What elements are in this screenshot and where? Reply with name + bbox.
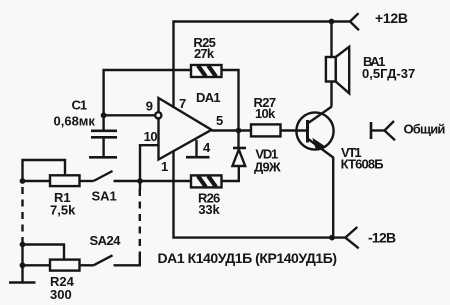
wire: R26 left to switch bus bbox=[114, 180, 192, 182]
junction dot R24 left node bbox=[20, 262, 26, 268]
wire: rail to R1 left bbox=[23, 180, 51, 182]
resistor R26 hatch bbox=[198, 176, 216, 187]
switch SA24 lever bbox=[94, 255, 113, 265]
speaker BA1 body bbox=[326, 57, 336, 82]
svg-text:Общий: Общий bbox=[404, 122, 446, 137]
switch SA1 lever bbox=[94, 171, 113, 181]
svg-text:5: 5 bbox=[216, 113, 223, 128]
svg-text:-12В: -12В bbox=[368, 230, 396, 246]
wire: pin 10 input bbox=[140, 145, 159, 181]
transistor VT1 emitter arrow bbox=[312, 138, 325, 151]
left rail dashed section bbox=[21, 187, 23, 241]
resistor R26 body bbox=[191, 175, 222, 187]
wire: pin 9 input from C1 node bbox=[104, 114, 156, 116]
transistor VT1 emitter bbox=[308, 139, 334, 238]
ground bar below rail bbox=[9, 281, 36, 284]
wire: R1 right to SA1 contact bbox=[80, 180, 94, 182]
ground bar pin 4 bbox=[186, 156, 210, 159]
svg-text:DA1 К140УД1Б (КР140УД1Б): DA1 К140УД1Б (КР140УД1Б) bbox=[158, 250, 337, 266]
wire: SA24 right contact to bus bbox=[114, 254, 140, 265]
junction dot +12V / speaker node bbox=[329, 19, 335, 25]
svg-text:+12В: +12В bbox=[375, 10, 408, 26]
terminal +12V arrow bbox=[350, 13, 359, 30]
wire: output pin 5 to R27 bbox=[212, 129, 252, 131]
junction dot switch bus node bbox=[137, 178, 143, 184]
wire: rail to R24 left bbox=[23, 264, 51, 266]
wire: speaker bottom lead to collector bbox=[330, 82, 332, 107]
junction dot R1 rail node bbox=[20, 178, 26, 184]
left rail top corner and R1 tap bbox=[23, 160, 66, 181]
speaker BA1 cone bbox=[336, 47, 350, 94]
terminal common post bbox=[370, 122, 373, 139]
svg-text:27k: 27k bbox=[194, 46, 215, 61]
junction dot R24 tap node bbox=[20, 242, 26, 248]
terminal common arrow bbox=[385, 121, 396, 140]
wire: R27 to base bbox=[281, 129, 308, 131]
op-amp pin 9 inversion bubble bbox=[155, 112, 161, 118]
junction dot C1 / pin9 / feedback node bbox=[101, 112, 107, 118]
svg-text:КТ608Б: КТ608Б bbox=[341, 156, 384, 171]
svg-text:SA1: SA1 bbox=[92, 189, 117, 204]
junction dot -12V / emitter node bbox=[329, 235, 335, 241]
left rail solid lower section bbox=[21, 241, 23, 282]
wire: +12V rail from pin 7 up and right to terminal bbox=[174, 22, 351, 109]
wire: R25 right to output node bbox=[222, 70, 239, 131]
svg-text:SA24: SA24 bbox=[90, 233, 122, 248]
junction dot output node bbox=[236, 128, 242, 134]
svg-text:10k: 10k bbox=[255, 106, 276, 121]
diode VD1 top lead bbox=[237, 131, 239, 149]
svg-text:Д9Ж: Д9Ж bbox=[254, 160, 281, 175]
wire: R24 tap over the top bbox=[23, 245, 65, 260]
resistor R25 body bbox=[191, 65, 222, 77]
op-amp DA1 triangle bbox=[159, 98, 212, 160]
resistor R25 hatch bbox=[198, 66, 216, 77]
svg-text:10: 10 bbox=[144, 129, 158, 144]
svg-text:7,5k: 7,5k bbox=[50, 203, 76, 218]
wire: -12V bottom rail from pin 1 bbox=[174, 152, 346, 238]
wire: feedback up and right to R25 bbox=[104, 70, 191, 115]
resistor R1 body bbox=[50, 175, 80, 186]
terminal -12V arrow bbox=[345, 227, 358, 248]
diode VD1 cathode bar bbox=[233, 147, 246, 150]
resistor R24 body bbox=[50, 260, 80, 271]
svg-text:4: 4 bbox=[203, 140, 211, 155]
svg-text:С1: С1 bbox=[72, 98, 87, 113]
switch bus solid top section bbox=[139, 181, 141, 190]
wire: pin 4 down to ground bbox=[195, 140, 197, 157]
svg-text:0,5ГД-37: 0,5ГД-37 bbox=[362, 66, 415, 81]
diode VD1 bottom lead to R26 bbox=[222, 166, 239, 181]
transistor VT1 base bar bbox=[306, 120, 309, 143]
wire: common terminal bbox=[371, 129, 385, 131]
diode VD1 triangle bbox=[232, 150, 245, 167]
svg-text:9: 9 bbox=[146, 99, 153, 114]
wire: R24 right to SA24 contact bbox=[80, 264, 94, 266]
capacitor C1 plates bbox=[91, 130, 117, 133]
svg-text:DA1: DA1 bbox=[196, 90, 220, 105]
capacitor C1 bottom lead bbox=[102, 139, 104, 157]
resistor R27 body bbox=[251, 124, 281, 136]
svg-text:0,68мк: 0,68мк bbox=[54, 114, 96, 129]
transistor VT1 circle bbox=[296, 112, 333, 149]
svg-text:300: 300 bbox=[50, 287, 72, 302]
svg-text:7: 7 bbox=[179, 96, 186, 111]
wire: speaker top lead bbox=[330, 22, 332, 58]
transistor VT1 collector bbox=[308, 107, 332, 124]
svg-text:33k: 33k bbox=[198, 202, 220, 217]
capacitor C1 top lead bbox=[102, 115, 104, 130]
switch bus dashed section bbox=[139, 189, 141, 254]
ground bar below C1 bbox=[89, 156, 117, 159]
svg-text:1: 1 bbox=[161, 159, 168, 174]
